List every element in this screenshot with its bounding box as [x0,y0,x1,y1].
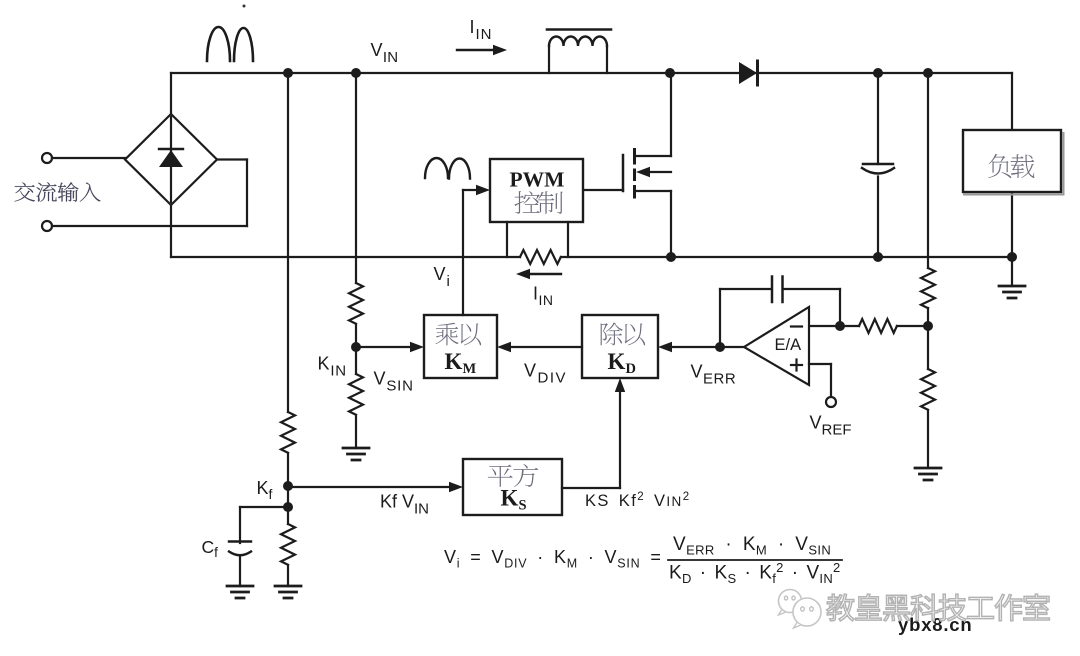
svg-text:K: K [608,349,626,374]
svg-text:E/A: E/A [775,336,802,354]
svg-text:K: K [445,349,463,374]
svg-text:M: M [463,361,477,377]
svg-text:PWM: PWM [510,168,565,192]
svg-text:K: K [501,486,519,511]
svg-text:S: S [519,498,527,514]
svg-text:D: D [626,361,636,377]
svg-text:KD · KS · Kf2 · VIN2: KD · KS · Kf2 · VIN2 [669,560,841,586]
